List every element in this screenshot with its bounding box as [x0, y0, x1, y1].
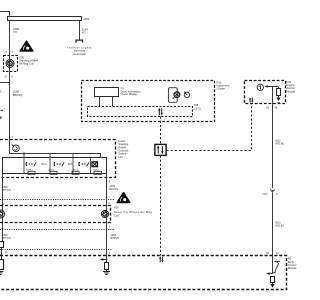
serial data junction box — [155, 144, 166, 155]
resistor 2 — [50, 171, 57, 174]
svg-text:Coil: Coil — [114, 213, 119, 217]
P9 display rectangle — [95, 88, 119, 97]
wire 6311 from K33 down — [272, 87, 274, 189]
svg-text:X113: X113 — [262, 193, 268, 196]
left edge module box — [0, 260, 4, 270]
K9 internal switch — [273, 261, 281, 272]
air bag warning triangle (lower) — [117, 193, 130, 203]
left edge fragment marks — [0, 116, 2, 119]
svg-text:WT/GN: WT/GN — [2, 237, 11, 240]
bus bar J260 — [8, 17, 82, 21]
svg-text:B/N/GN: B/N/GN — [109, 188, 118, 191]
svg-text:R13+: R13+ — [41, 164, 47, 166]
svg-text:W/S BG: W/S BG — [275, 143, 284, 146]
svg-text:Center Display: Center Display — [121, 93, 138, 96]
connector X30 dashed box (top coil) — [4, 56, 18, 72]
switch contact 1 — [26, 162, 36, 166]
svg-text:Steering Wheel Air Bag: Steering Wheel Air Bag — [114, 210, 152, 214]
wire to ground — [106, 270, 108, 272]
serial data dashed wire from X88 down — [160, 117, 162, 145]
cell divider risers — [24, 154, 91, 174]
K9 internal resistor — [271, 277, 275, 283]
wire 1134 VC down from bus bar right end — [79, 21, 81, 40]
svg-text:Module: Module — [286, 89, 295, 93]
steering wheel controls dashed enclosure — [0, 140, 116, 178]
wire 1384 from switch box right down — [106, 174, 108, 263]
svg-text:Automatic: Automatic — [73, 52, 86, 56]
K9 internal arrow left — [266, 272, 273, 275]
serial data dashed wire junction down to K9 — [160, 156, 162, 256]
svg-text:W/S BG: W/S BG — [275, 225, 284, 228]
indicator lamp housing — [168, 88, 177, 103]
K33 internal arrow to device — [264, 85, 278, 88]
junction dot on supply bus — [23, 153, 25, 155]
svg-text:SET-: SET- — [68, 164, 73, 166]
audio switch pack box — [3, 158, 107, 174]
steering wheel coil circle (left edge, on wire 673F) — [0, 210, 5, 218]
air bag warning triangle (top) — [20, 41, 33, 51]
svg-text:(1471): (1471) — [194, 107, 201, 110]
serial data connector arrows in X88 — [158, 108, 163, 116]
supply bus wire inside enclosure — [10, 154, 101, 158]
svg-text:Left: Left — [118, 155, 123, 159]
svg-text:VC: VC — [13, 30, 17, 34]
connector stub to Interior Lights Dimming Automatic — [76, 40, 83, 43]
K33 internal down arrow — [276, 96, 280, 103]
K9 internal down arrow — [270, 283, 275, 288]
svg-text:B/M BQ: B/M BQ — [13, 93, 22, 97]
left edge ground — [0, 272, 3, 275]
svg-text:Module: Module — [288, 266, 297, 270]
svg-text:VC: VC — [82, 31, 86, 35]
left edge wire continues — [1, 248, 3, 260]
inline connector on wire 6311 — [271, 189, 275, 192]
resistor 1 — [28, 171, 35, 174]
wire feed from top-left into bus bar — [0, 12, 10, 17]
internal arrow left (1384 branch) — [100, 258, 107, 261]
svg-text:B/N/GN: B/N/GN — [110, 237, 119, 240]
illumination lamp symbol — [92, 162, 98, 167]
connector boundary dotted line — [0, 199, 114, 201]
connector boundary dotted line 2 — [0, 229, 114, 231]
wire 673F from switch box left down — [2, 174, 4, 242]
resistor 4 — [94, 171, 102, 174]
wire branch to left edge — [0, 82, 10, 84]
svg-text:J260: J260 — [83, 17, 90, 21]
illumination bulb / coil symbol in enclosure — [12, 144, 20, 151]
air bag coil X30 dashed enclosure (lower) — [0, 206, 111, 223]
K33 internal device circle — [257, 84, 263, 90]
body control module K9 dashed box — [0, 256, 287, 290]
serial data dashed wire junction to K33 — [167, 104, 252, 151]
serial data connector arrows at K9 — [159, 256, 163, 262]
wire 1556 VC down from bus bar — [9, 21, 11, 154]
resistor 3 — [72, 171, 79, 174]
steering wheel coil circle (lower, on wire 1384) — [101, 210, 108, 217]
svg-text:WT/GN: WT/GN — [2, 189, 11, 192]
steering wheel air bag coil (top circle) — [6, 60, 14, 68]
switch contact 2 — [54, 162, 64, 166]
switch contact 3 — [79, 162, 89, 166]
svg-text:Cluster: Cluster — [217, 87, 226, 91]
P9 display legs — [100, 97, 113, 107]
internal resistor (1384 to ground) — [105, 263, 109, 270]
K33 internal resistor — [278, 87, 280, 89]
left edge fragment arrow — [0, 110, 3, 112]
driver information center display P10 outer dashed box — [82, 81, 215, 122]
wire 6311 continues to K9 — [272, 192, 274, 273]
engine control module K33 dashed box — [245, 81, 286, 104]
gauge symbol — [184, 91, 190, 98]
serial data connector arrows in K33 — [249, 97, 253, 103]
X88 inner dashed connector box — [88, 107, 193, 117]
ground symbol — [103, 272, 110, 275]
air bag indicator lamp — [173, 92, 180, 99]
svg-text:Air Bag Coil: Air Bag Coil — [19, 62, 34, 66]
left edge connector box — [0, 242, 4, 248]
connector boundary dotted line 3 — [0, 249, 113, 251]
